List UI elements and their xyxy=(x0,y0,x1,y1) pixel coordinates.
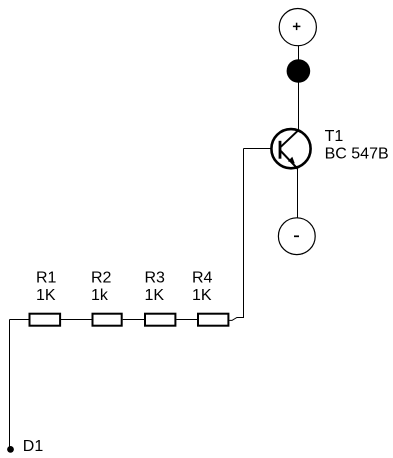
wire emitter to negative terminal xyxy=(297,169,299,218)
svg-text:R2: R2 xyxy=(91,270,112,287)
svg-text:R4: R4 xyxy=(192,270,213,287)
wire base vertical xyxy=(243,149,245,319)
wire jog to R4 xyxy=(229,318,243,321)
wire R3 to R4 xyxy=(176,319,197,321)
wire base horizontal xyxy=(244,148,272,150)
svg-text:1k: 1k xyxy=(91,287,109,304)
junction node (collector net dot) xyxy=(287,59,311,83)
wire left lead to R1 xyxy=(10,319,30,321)
negative supply terminal - xyxy=(278,218,315,255)
transistor T1 BC 547B xyxy=(271,129,310,169)
svg-text:R3: R3 xyxy=(145,270,166,287)
svg-text:T1: T1 xyxy=(325,128,344,145)
svg-text:D1: D1 xyxy=(23,438,44,455)
svg-text:1K: 1K xyxy=(145,287,165,304)
resistor R3 xyxy=(145,314,175,326)
wire supply to junction xyxy=(298,46,300,61)
svg-text:BC 547B: BC 547B xyxy=(325,146,389,163)
wire junction to collector xyxy=(298,82,300,131)
wire R2 to R3 xyxy=(123,319,145,321)
svg-text:1K: 1K xyxy=(36,287,56,304)
resistor R1 xyxy=(30,314,61,326)
resistor R2 xyxy=(93,314,122,326)
wire R1 to R2 xyxy=(61,319,92,321)
svg-text:1K: 1K xyxy=(192,287,212,304)
node D1 terminal dot xyxy=(7,446,14,453)
svg-text:R1: R1 xyxy=(36,270,57,287)
wire down to D1 xyxy=(9,320,11,447)
positive supply terminal + xyxy=(279,9,316,46)
resistor R4 xyxy=(198,314,228,326)
